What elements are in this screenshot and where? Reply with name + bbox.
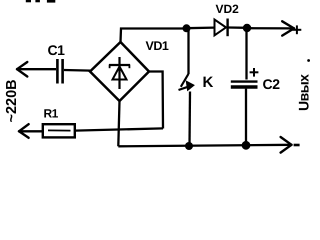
wire node A to VD2 anode	[187, 26, 215, 29]
output terminal arrow (bottom, -)	[281, 137, 292, 153]
node A junction dot (top rail / K branch)	[183, 24, 191, 32]
riser wire up to bridge right corner	[149, 72, 163, 129]
wire VD2 cathode to node B	[229, 26, 248, 29]
wire contact K down to bottom rail	[188, 92, 191, 147]
inner diode of VD1	[109, 57, 130, 89]
svg-text:~220В: ~220В	[4, 79, 20, 122]
capacitor C1	[57, 59, 62, 84]
node C junction dot (bottom rail / K branch)	[185, 142, 193, 150]
wire bridge top corner up to top rail	[121, 29, 187, 43]
wire C1 to bridge left corner	[64, 69, 91, 72]
svg-text:K: K	[203, 74, 214, 91]
input terminal arrow (upper, AC line)	[17, 62, 27, 77]
inner line of R1 (scan bleed)	[48, 129, 71, 131]
plus mark of C2	[250, 68, 259, 77]
svg-text:C2: C2	[263, 76, 281, 92]
input terminal arrow (lower, AC line)	[19, 124, 29, 138]
stray dot near Uout	[307, 59, 310, 62]
relay contact K arrow	[179, 81, 195, 90]
relay contact K blade	[181, 74, 189, 87]
resistor R1	[43, 124, 75, 137]
bridge rectifier VD1 (diamond)	[90, 42, 149, 101]
plus label (top output)	[293, 25, 302, 34]
wire arrow to R1	[19, 130, 43, 132]
wire R1 to riser	[75, 128, 163, 130]
node B junction dot (top rail / C2)	[243, 24, 251, 32]
output terminal arrow (top, +)	[282, 21, 294, 35]
stray text fragments (cropped line above)	[26, 0, 56, 3]
svg-text:VD2: VD2	[216, 2, 240, 16]
capacitor C2 (electrolytic)	[231, 82, 258, 87]
svg-text:Uвых: Uвых	[296, 74, 312, 111]
node D junction dot (bottom rail / C2)	[242, 141, 251, 150]
wire arrow to C1	[17, 68, 56, 70]
svg-text:R1: R1	[44, 107, 59, 121]
svg-text:C1: C1	[48, 42, 66, 58]
relay contact K: wire from node A down	[187, 29, 189, 75]
svg-text:VD1: VD1	[146, 39, 169, 53]
wire bridge bottom corner down	[118, 101, 119, 146]
minus label (bottom output)	[294, 144, 300, 147]
diode VD2	[215, 19, 228, 37]
wire node B to output arrow	[247, 27, 292, 29]
wire C2 down to bottom rail	[245, 89, 247, 146]
wire node B down to C2	[245, 28, 247, 80]
bottom rail	[118, 145, 292, 147]
